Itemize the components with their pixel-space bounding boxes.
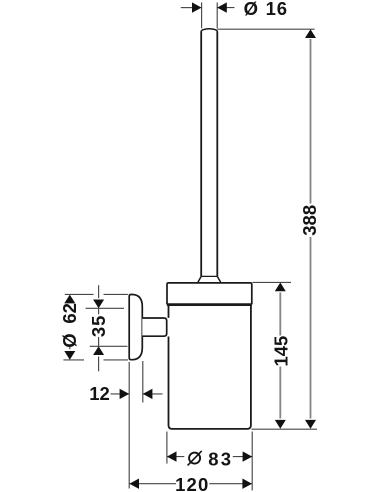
svg-text:Ø 62: Ø 62 xyxy=(59,303,80,348)
svg-text:83: 83 xyxy=(208,448,233,469)
svg-text:16: 16 xyxy=(266,0,288,19)
svg-text:35: 35 xyxy=(88,315,109,338)
svg-text:145: 145 xyxy=(270,336,291,367)
svg-text:12: 12 xyxy=(89,383,110,404)
svg-text:120: 120 xyxy=(175,474,209,492)
svg-text:Ø: Ø xyxy=(244,0,258,19)
svg-text:388: 388 xyxy=(299,205,320,236)
